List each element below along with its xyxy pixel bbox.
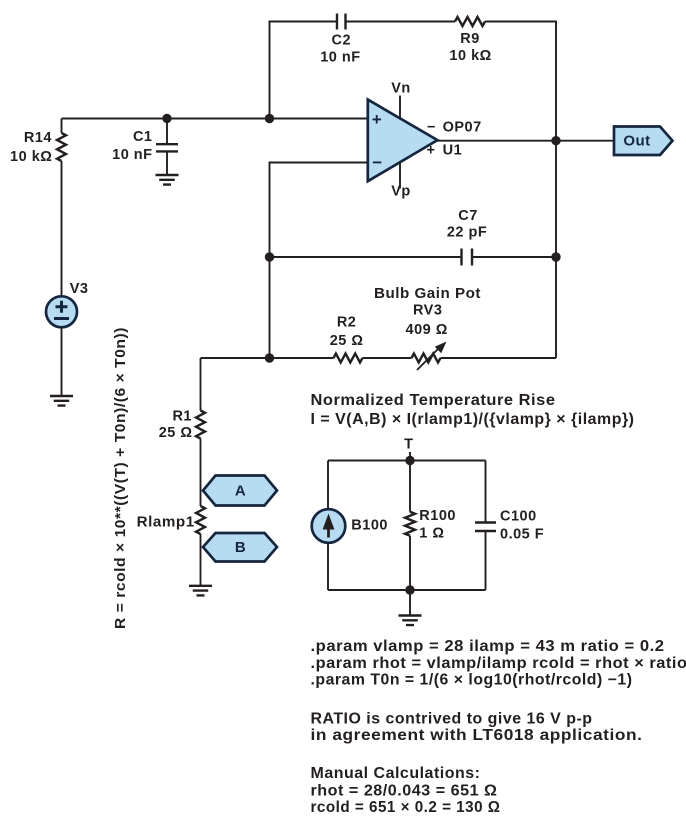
wire R2 row left: [201, 357, 334, 359]
svg-text:rhot = 28/0.043 = 651 Ω: rhot = 28/0.043 = 651 Ω: [311, 782, 498, 799]
svg-text:R9: R9: [460, 31, 480, 47]
node flag B: [203, 533, 277, 562]
wire C7 row right: [472, 256, 556, 258]
pin Vn: [391, 81, 411, 119]
svg-text:.param rhot = vlamp/ilamp rcol: .param rhot = vlamp/ilamp rcold = rhot ×…: [311, 655, 686, 672]
wire R1 branch top: [200, 358, 202, 411]
ground subcircuit: [399, 616, 422, 626]
svg-text:C2: C2: [332, 32, 352, 48]
svg-text:1 Ω: 1 Ω: [419, 525, 444, 541]
wire V3 to ground: [61, 327, 63, 396]
out flag Out: [614, 127, 673, 156]
resistor R14: [10, 130, 66, 165]
wire C7 row left: [270, 256, 462, 258]
capacitor C2: [320, 14, 360, 66]
voltage source V3: [46, 281, 88, 327]
svg-text:R14: R14: [24, 130, 52, 146]
capacitor C100: [475, 461, 544, 591]
svg-text:25 Ω: 25 Ω: [330, 333, 364, 349]
wire between C2 and R9: [346, 21, 456, 23]
svg-text:+: +: [427, 142, 436, 158]
junction dot output node: [551, 136, 560, 145]
wire subcircuit bottom: [328, 589, 486, 591]
svg-text:R100: R100: [419, 508, 456, 524]
wire R9 to output node: [485, 22, 556, 141]
svg-text:409 Ω: 409 Ω: [406, 322, 448, 338]
wire ground stem: [409, 590, 411, 616]
svg-text:rcold = 651 × 0.2 = 130 Ω: rcold = 651 × 0.2 = 130 Ω: [311, 799, 501, 816]
svg-text:10 nF: 10 nF: [112, 147, 152, 163]
svg-text:.param T0n = 1/(6 × log10(rhot: .param T0n = 1/(6 × log10(rhot/rcold) −1…: [311, 672, 633, 689]
potentiometer RV3: [374, 286, 481, 370]
svg-text:−: −: [372, 153, 382, 172]
resistor R1: [159, 409, 205, 441]
junction dot subcircuit bottom: [405, 585, 414, 594]
svg-text:A: A: [235, 483, 246, 500]
resistor R100: [405, 508, 456, 541]
svg-text:Rlamp1: Rlamp1: [137, 514, 195, 530]
wire R14 top stub: [61, 119, 63, 134]
svg-text:−: −: [427, 120, 436, 136]
junction dot T node: [405, 456, 414, 465]
svg-text:R1: R1: [172, 409, 192, 425]
svg-text:Vp: Vp: [391, 184, 411, 200]
junction dot C7 right: [551, 252, 560, 261]
svg-text:RATIO is contrived to give 16: RATIO is contrived to give 16 V p-p: [311, 710, 593, 727]
svg-text:0.05 F: 0.05 F: [500, 526, 544, 542]
wire input row from R14 to op-amp plus input: [62, 118, 369, 120]
svg-text:T: T: [404, 436, 413, 452]
wire subcircuit top: [328, 460, 486, 462]
junction dot C1 node: [162, 114, 171, 123]
ground below V3: [50, 396, 73, 406]
svg-text:22 pF: 22 pF: [447, 225, 487, 241]
wire top feedback left segment: [270, 22, 338, 119]
wire R14 to V3: [61, 161, 63, 296]
svg-text:RV3: RV3: [413, 303, 442, 319]
capacitor C1: [112, 119, 178, 176]
svg-text:Manual Calculations:: Manual Calculations:: [311, 765, 481, 782]
svg-text:R2: R2: [337, 315, 357, 331]
svg-text:Vn: Vn: [391, 81, 411, 97]
junction dot R2 row: [265, 353, 274, 362]
wire right vertical output to R2 row: [555, 141, 557, 358]
wire R100 bottom: [409, 536, 411, 590]
wire Rlamp1 to ground: [200, 534, 202, 586]
svg-text:25 Ω: 25 Ω: [159, 425, 193, 441]
ground below C1: [156, 175, 179, 185]
wire inverting input: [270, 163, 369, 359]
svg-text:B: B: [235, 539, 246, 556]
svg-text:B100: B100: [351, 518, 388, 534]
svg-text:+: +: [372, 110, 382, 129]
junction dot feedback input node: [265, 114, 274, 123]
wire subcircuit left lower: [327, 543, 329, 590]
svg-text:V3: V3: [70, 281, 89, 297]
svg-text:in agreement with LT6018 appli: in agreement with LT6018 application.: [311, 727, 643, 744]
capacitor C7: [447, 208, 487, 266]
svg-text:Out: Out: [623, 133, 650, 150]
svg-text:Bulb Gain Pot: Bulb Gain Pot: [374, 286, 481, 302]
svg-text:I = V(A,B) × I(rlamp1)/({vlamp: I = V(A,B) × I(rlamp1)/({vlamp} × {ilamp…: [311, 411, 635, 428]
resistor R2: [330, 315, 364, 363]
svg-text:Normalized Temperature Rise: Normalized Temperature Rise: [311, 392, 556, 409]
wire R100 top: [409, 461, 411, 512]
svg-text:R = rcold × 10**((V(T) + T0n)/: R = rcold × 10**((V(T) + T0n)/(6 × T0n)): [113, 327, 129, 629]
svg-text:.param vlamp = 28 ilamp = 43 m: .param vlamp = 28 ilamp = 43 m ratio = 0…: [311, 638, 665, 655]
svg-text:10 nF: 10 nF: [320, 49, 360, 65]
svg-text:10 kΩ: 10 kΩ: [449, 48, 491, 64]
resistor Rlamp1: [137, 506, 205, 534]
wire subcircuit left upper: [327, 461, 329, 510]
wire T stub: [409, 452, 411, 461]
wire RV3 to right corner: [441, 357, 557, 359]
svg-text:C100: C100: [500, 509, 537, 525]
wire R1 to Rlamp1: [200, 439, 202, 507]
current source B100: [312, 509, 388, 543]
wire between R2 and RV3: [363, 357, 412, 359]
junction dot C7 left: [265, 252, 274, 261]
wire output row: [437, 140, 614, 142]
svg-text:C7: C7: [458, 208, 478, 224]
pin Vp: [391, 163, 411, 200]
svg-text:10 kΩ: 10 kΩ: [10, 149, 52, 165]
svg-text:OP07: OP07: [443, 120, 482, 136]
svg-text:C1: C1: [133, 129, 153, 145]
op-amp U1: [368, 100, 438, 182]
node flag A: [203, 476, 277, 506]
ground below Rlamp1: [189, 586, 212, 596]
svg-text:U1: U1: [443, 142, 463, 158]
resistor R9: [449, 17, 491, 64]
